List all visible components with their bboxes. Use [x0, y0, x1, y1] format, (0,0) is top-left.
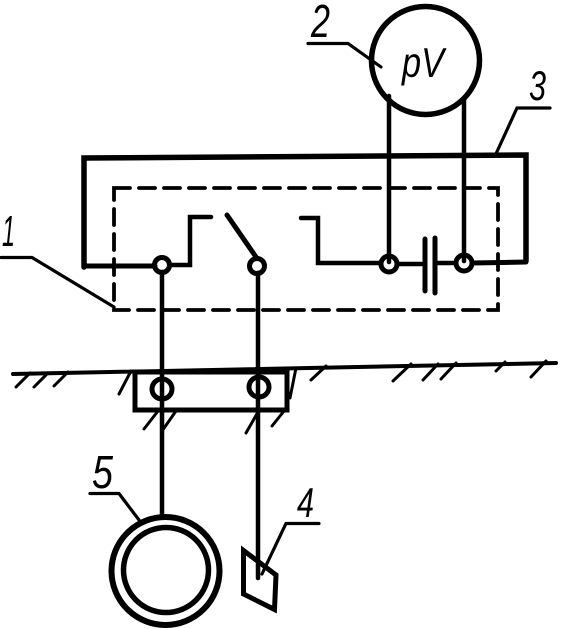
wire: node B down to plate electrode — [256, 273, 261, 578]
svg-text:2: 2 — [310, 0, 330, 47]
enclosure box 3 (solid screening box outline) — [84, 155, 526, 267]
wire: meter right lead down to node D — [462, 98, 467, 261]
switch S1 arm (open knife switch) — [227, 215, 256, 257]
wire: switch right contact step to node C — [301, 218, 381, 263]
capacitor C1 left lead — [397, 262, 422, 267]
svg-text:4: 4 — [297, 479, 314, 526]
wire: node D to right box edge — [472, 262, 526, 263]
svg-text:1: 1 — [2, 207, 15, 256]
node E (below-ground terminal left) — [152, 379, 172, 399]
wire: left box edge to node A — [84, 264, 155, 269]
node C (terminal) — [381, 256, 397, 272]
svg-text:3: 3 — [529, 62, 546, 109]
junction box below ground — [135, 372, 287, 410]
label 2 with leader — [308, 0, 381, 67]
node B (switch pivot terminal) — [250, 259, 265, 274]
svg-text:5: 5 — [92, 446, 113, 498]
ring electrode 5 — [112, 517, 220, 625]
ground surface line — [13, 363, 556, 374]
wire: meter left lead down to node C — [387, 96, 392, 262]
capacitor C1 plates — [425, 238, 435, 293]
node A (terminal) — [155, 258, 170, 273]
meter PV (microvoltmeter, item 2) — [372, 7, 480, 115]
label 5 with leader — [90, 446, 139, 520]
label 3 with leader — [495, 62, 550, 156]
capacitor C1 right lead — [438, 261, 456, 266]
node F (below-ground terminal right) — [249, 377, 269, 397]
node D (terminal) — [456, 255, 472, 271]
wire: node A to switch left contact step — [170, 217, 211, 265]
plate electrode 4 — [244, 551, 277, 610]
ground hatching marks — [16, 361, 546, 433]
label 4 with leader — [262, 479, 319, 574]
dashed boundary 1 (screened zone) — [114, 188, 498, 310]
label 1 with leader — [1, 207, 114, 307]
svg-text:pV: pV — [400, 39, 447, 86]
wire: node A down to ring electrode — [160, 272, 165, 514]
